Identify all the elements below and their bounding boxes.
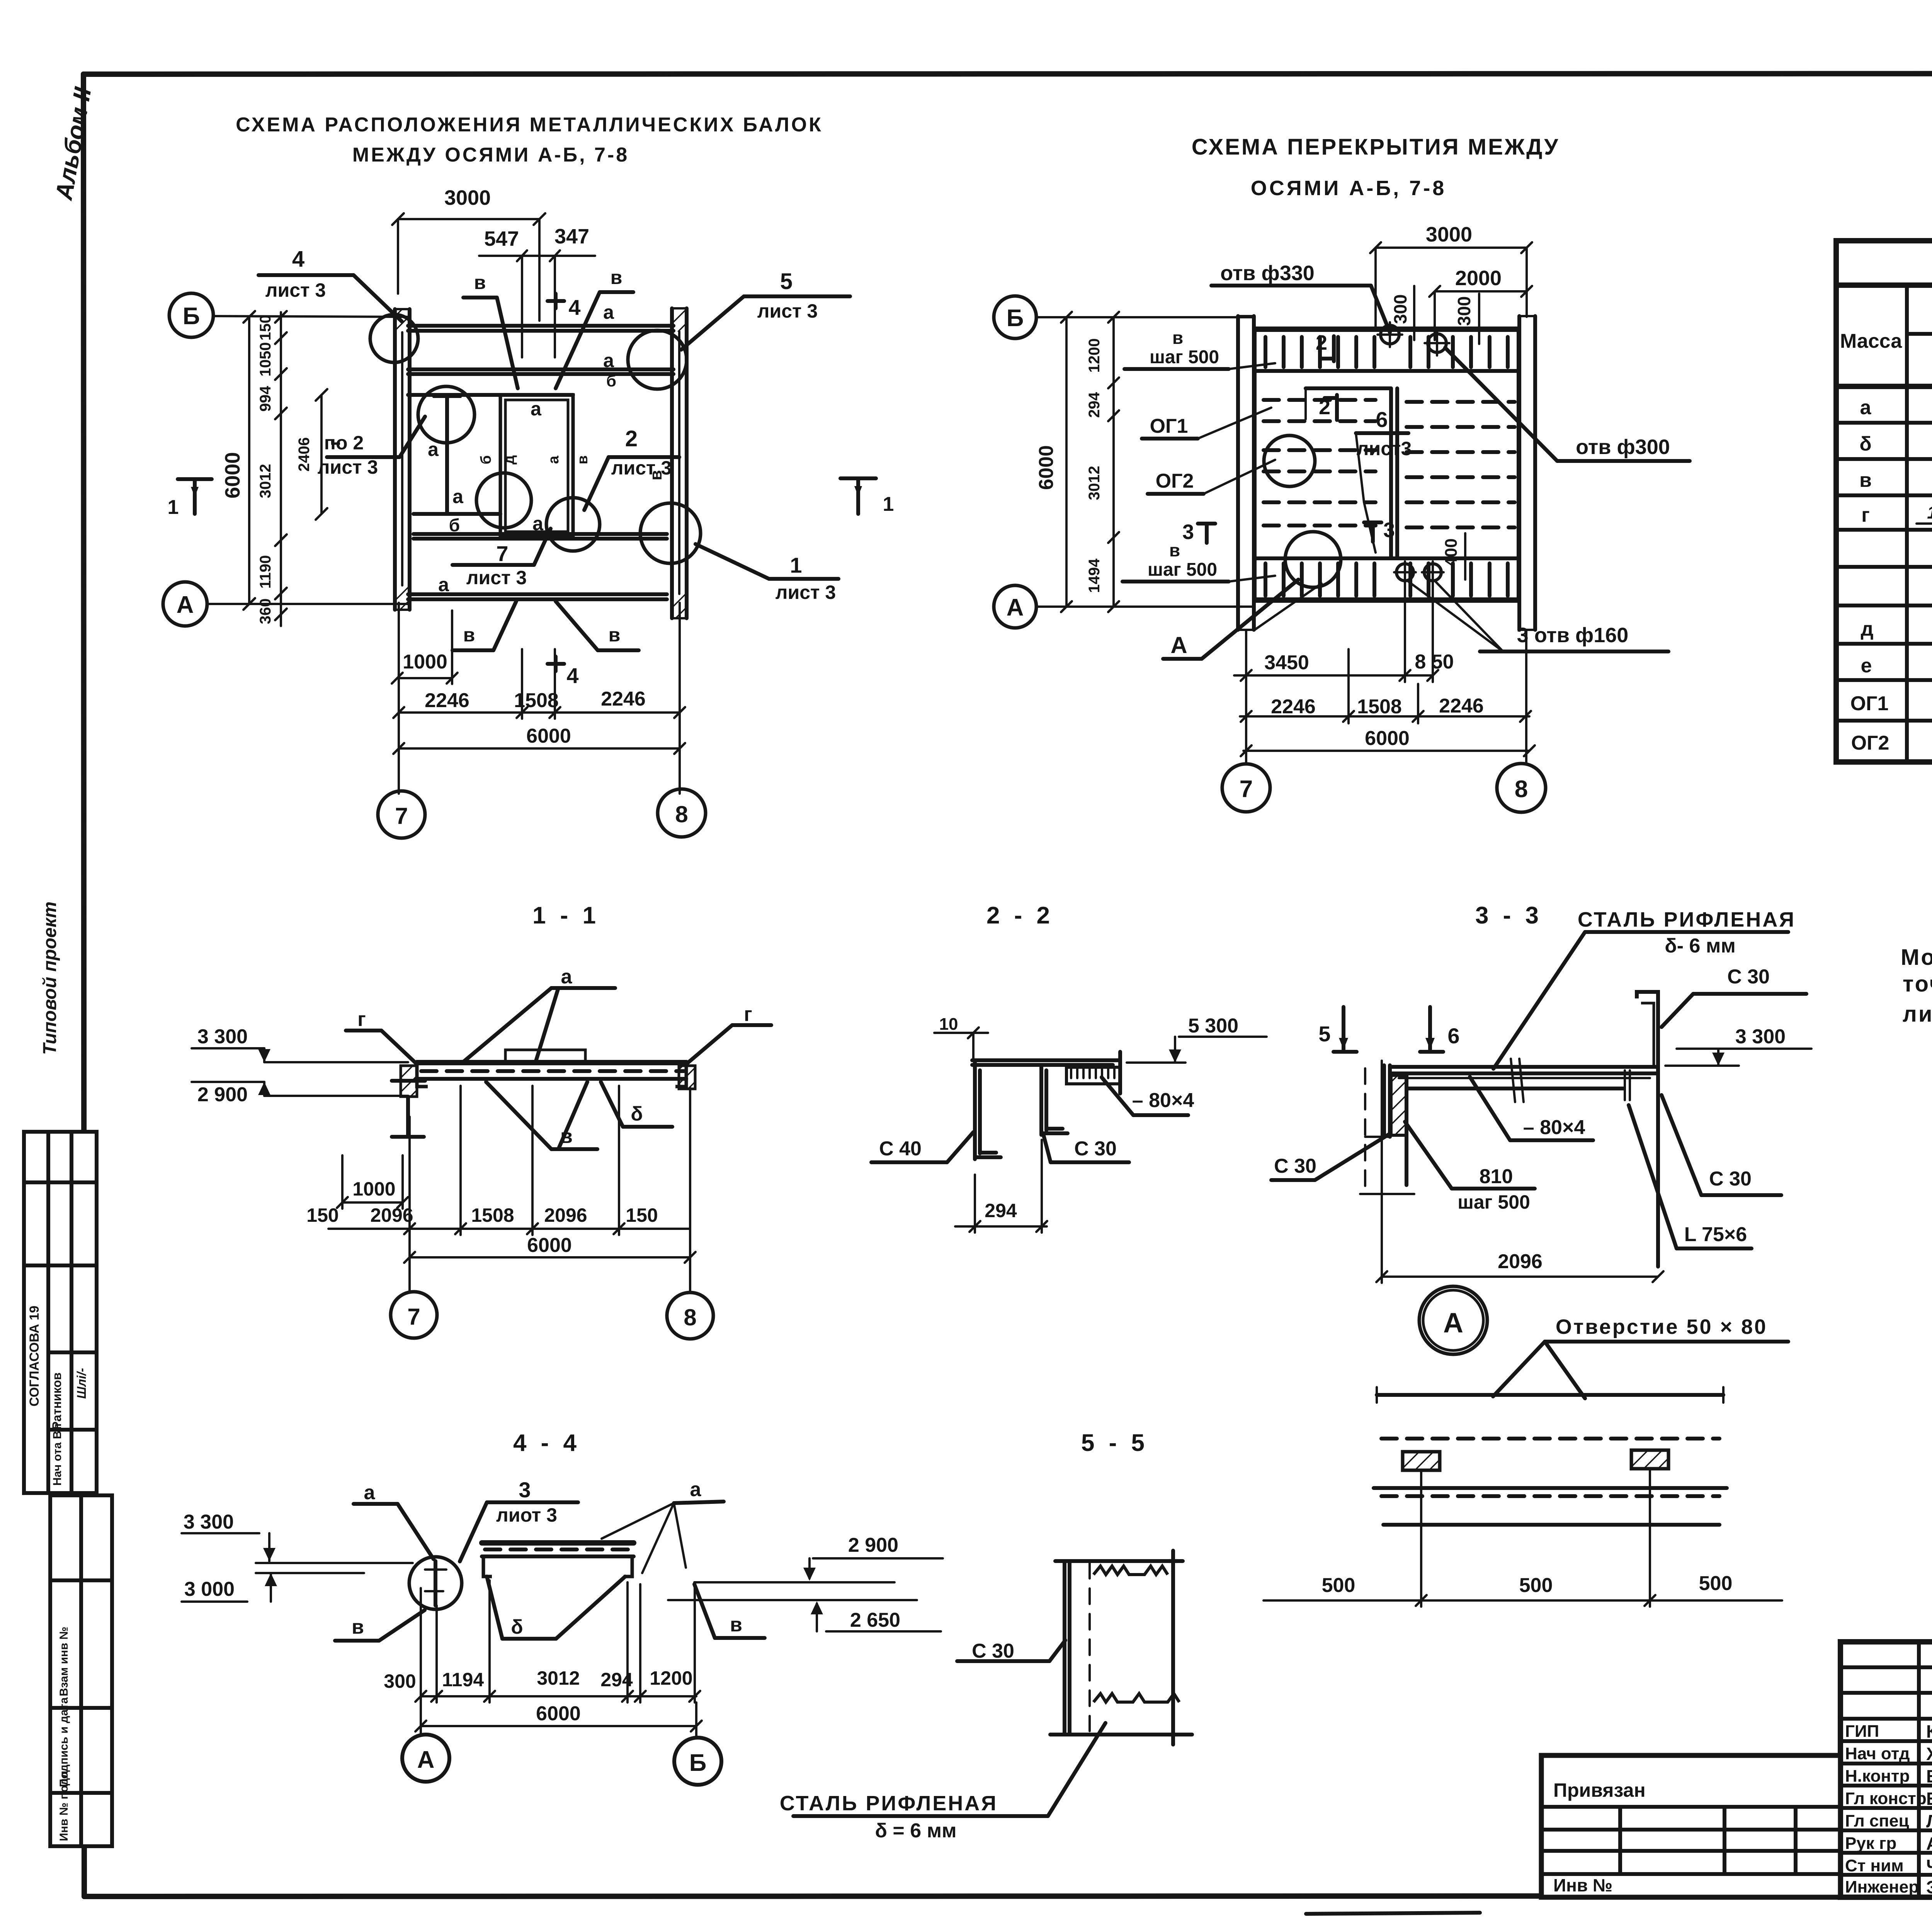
- section 1-1 dim 1000: [337, 1155, 408, 1209]
- table row b: [1859, 430, 1932, 456]
- svg-text:СХЕМА РАСПОЛОЖЕНИЯ МЕТАЛЛИЧЕС: СХЕМА РАСПОЛОЖЕНИЯ МЕТАЛЛИЧЕСКИХ БАЛОК: [236, 114, 823, 136]
- section 1-1 grid circle 7: [391, 1292, 437, 1338]
- grid circle А plan2: [994, 585, 1255, 628]
- svg-text:г: г: [744, 1003, 752, 1026]
- section 3-3 callout C30 top: [1662, 966, 1806, 1027]
- plan1 grid circle 8: [658, 789, 706, 837]
- plan2 bottom hole2 ф160: [1422, 561, 1444, 583]
- detail A beam plan: [1374, 1387, 1727, 1525]
- svg-text:5: 5: [780, 269, 793, 294]
- svg-text:2406: 2406: [296, 437, 313, 472]
- table header texts: [1840, 296, 1932, 385]
- plan2 section mark 3 left: [1182, 520, 1215, 544]
- svg-text:1: 1: [883, 493, 894, 515]
- title block signature names: [1926, 1721, 1932, 1897]
- section 3-3 callout 810 шаг500: [1405, 1122, 1535, 1213]
- svg-text:1: 1: [790, 553, 802, 577]
- plan1 detail circle C4: [476, 473, 531, 528]
- svg-text:δ: δ: [1859, 433, 1872, 455]
- detail A hole 2: [1631, 1450, 1668, 1469]
- section 4-4 v callout left: [335, 1610, 425, 1641]
- svg-text:Н.контр: Н.контр: [1845, 1767, 1910, 1786]
- svg-text:Нач отд: Нач отд: [1845, 1744, 1910, 1763]
- section 4-4 heading: [513, 1430, 580, 1456]
- section 3-3 deck plate: [1390, 1059, 1658, 1102]
- plan1 letter labels: [325, 301, 665, 595]
- section 5-5 column top line: [1050, 1551, 1192, 1745]
- svg-text:лист 3: лист 3: [611, 457, 672, 479]
- svg-text:б: б: [478, 455, 494, 464]
- plan2 dim 3450 850: [1234, 583, 1454, 682]
- section 5-5 leader to сталь рифленая: [1048, 1723, 1105, 1816]
- section 4-4 level 3000: [182, 1573, 364, 1602]
- svg-text:400: 400: [1442, 538, 1461, 566]
- section 4-4 callout 3 лист3: [460, 1478, 578, 1561]
- svg-text:1194: 1194: [442, 1669, 484, 1690]
- section 4-4 grid circle Б: [674, 1738, 721, 1785]
- plan2 dim 2246 1508 2246: [1240, 649, 1531, 723]
- section 1-1 dim 6000: [404, 1088, 696, 1292]
- plan1 beam under opening: [413, 512, 500, 516]
- plan1 grid circle 7: [378, 791, 425, 838]
- plan2 hole ф330: [1378, 322, 1402, 347]
- table row v: [1859, 467, 1932, 493]
- svg-text:360: 360: [257, 599, 274, 624]
- plan2 label А apex leader: [1255, 583, 1321, 630]
- svg-text:а: а: [364, 1481, 376, 1504]
- svg-text:в: в: [1172, 328, 1183, 348]
- section 4-4 dim 6000: [415, 1702, 702, 1737]
- svg-text:3 отв ф160: 3 отв ф160: [1517, 624, 1629, 647]
- plan1 callout 4 лист3: [259, 247, 402, 321]
- table row OG2: [1851, 730, 1932, 755]
- plan1 title line2: [352, 144, 629, 166]
- plan1 callout по2 лист3: [318, 417, 425, 478]
- svg-text:в: в: [575, 455, 591, 464]
- elements table frame: [1836, 241, 1932, 762]
- svg-text:Нач ота Вл: Нач ота Вл: [51, 1423, 64, 1486]
- svg-text:1000: 1000: [352, 1178, 395, 1200]
- svg-text:547: 547: [484, 227, 519, 250]
- plan2 label ОГ2: [1148, 460, 1275, 494]
- section 5-5 heading: [1081, 1430, 1148, 1456]
- svg-text:2 - 2: 2 - 2: [986, 902, 1054, 929]
- svg-text:д: д: [501, 455, 517, 464]
- plan2 rotated dim 400: [1442, 533, 1465, 580]
- svg-text:2 650: 2 650: [850, 1609, 900, 1631]
- svg-text:а: а: [532, 513, 544, 534]
- svg-text:5: 5: [1318, 1022, 1330, 1046]
- plan2 section mark 2 top: [1316, 331, 1334, 361]
- svg-text:4: 4: [292, 247, 304, 272]
- svg-text:6000: 6000: [526, 725, 571, 747]
- svg-text:1508: 1508: [514, 689, 559, 712]
- svg-text:2246: 2246: [1439, 695, 1484, 717]
- svg-text:шаг 500: шаг 500: [1150, 347, 1219, 367]
- plan1 beam lower: [413, 534, 667, 539]
- svg-text:7: 7: [395, 803, 408, 829]
- plan1 dim row 2246 1508 2246: [393, 649, 685, 719]
- section 3-3 left support column: [1360, 1065, 1414, 1194]
- section 1-1 level 3.300: [192, 1026, 408, 1062]
- section 1-1 grid circle 8: [667, 1293, 713, 1339]
- title block outer: [1840, 1642, 1932, 1897]
- detail A dims 500 500 500: [1264, 1471, 1782, 1607]
- svg-text:в: в: [352, 1616, 364, 1638]
- svg-text:МЕЖДУ ОСЯМИ А-Б, 7-8: МЕЖДУ ОСЯМИ А-Б, 7-8: [352, 144, 629, 166]
- svg-text:1190: 1190: [257, 555, 274, 589]
- svg-text:в: в: [474, 272, 486, 293]
- svg-text:Рук гр: Рук гр: [1845, 1834, 1896, 1853]
- section 2-2 heading: [986, 902, 1054, 929]
- plan1 section mark 4 top: [548, 294, 581, 320]
- svg-text:по 2: по 2: [324, 432, 364, 454]
- table row d: [1861, 609, 1932, 643]
- plan1 dim 547 left: [479, 225, 595, 357]
- plan1 detail circle C2: [628, 330, 687, 389]
- plan2 dim 3000: [1370, 223, 1532, 328]
- title block privyazan box: [1541, 1755, 1840, 1897]
- label сталь рифленая bottom: [780, 1792, 1048, 1842]
- svg-text:2096: 2096: [370, 1204, 413, 1226]
- svg-text:в: в: [730, 1614, 742, 1636]
- plan2 title line2: [1251, 177, 1446, 200]
- svg-text:Монтажные соединения выполня: Монтажные соединения выполнять на болтах…: [1901, 945, 1932, 970]
- svg-text:500: 500: [1699, 1572, 1733, 1595]
- svg-text:3012: 3012: [257, 464, 274, 498]
- page border bottom: [84, 1896, 1932, 1896]
- svg-text:Черкасова: Черкасова: [1926, 1856, 1932, 1876]
- plan1 callout 1 лист3: [696, 544, 838, 603]
- svg-text:4 - 4: 4 - 4: [513, 1430, 580, 1456]
- table row OG1: [1850, 690, 1932, 715]
- svg-text:отв ф300: отв ф300: [1576, 435, 1670, 459]
- table row e: [1861, 651, 1932, 677]
- section 2-2 callout C40: [871, 1132, 973, 1162]
- plan1 callout 2 лист3: [584, 426, 679, 510]
- svg-text:1: 1: [168, 496, 179, 519]
- plan1 detail circle C6: [640, 503, 701, 563]
- plan2 label А: [1163, 580, 1298, 659]
- svg-text:С 30: С 30: [1074, 1138, 1117, 1160]
- svg-text:Б: Б: [183, 303, 200, 330]
- detail A callout отверстие 50x80: [1493, 1315, 1788, 1398]
- plan2 dim chain 6000 vertical: [1035, 312, 1072, 612]
- svg-text:лист 3: лист 3: [757, 300, 818, 322]
- plan1 beam on axis А: [408, 594, 667, 599]
- section 3-3 callout -80x4: [1470, 1077, 1593, 1140]
- svg-text:Инв № подл: Инв № подл: [58, 1771, 70, 1841]
- svg-text:8: 8: [1515, 776, 1528, 803]
- plan1 title line1: [236, 114, 823, 136]
- plan2 label шаг500 bottom: [1122, 540, 1275, 582]
- plan1 left dim chain segments: [257, 311, 287, 626]
- svg-text:А: А: [417, 1747, 435, 1773]
- section 5-5 callout C30: [957, 1640, 1065, 1662]
- page border top: [83, 73, 1932, 74]
- svg-text:L 75×6: L 75×6: [1684, 1223, 1747, 1246]
- svg-text:Б: Б: [689, 1750, 707, 1776]
- plan1 beam mid partial: [408, 393, 573, 397]
- svg-text:а: а: [438, 574, 449, 595]
- svg-text:в: в: [609, 624, 621, 646]
- svg-text:3000: 3000: [1426, 223, 1472, 246]
- note text: [1901, 945, 1932, 1027]
- svg-text:6000: 6000: [1035, 445, 1058, 490]
- svg-text:3012: 3012: [537, 1667, 580, 1689]
- svg-text:б: б: [606, 372, 616, 390]
- svg-text:2: 2: [625, 426, 638, 451]
- svg-text:ОГ2: ОГ2: [1156, 470, 1194, 492]
- svg-text:2246: 2246: [1271, 696, 1316, 718]
- svg-text:294: 294: [985, 1200, 1017, 1221]
- svg-text:6000: 6000: [1365, 727, 1410, 750]
- svg-text:Винклер: Винклер: [1926, 1789, 1932, 1809]
- svg-text:С 40: С 40: [879, 1138, 922, 1160]
- svg-text:а: а: [1860, 396, 1872, 419]
- plan2 dashed deck lines right half: [1406, 402, 1515, 527]
- svg-text:Ст ним: Ст ним: [1845, 1856, 1904, 1875]
- plan1 section mark 1 left: [168, 479, 212, 519]
- svg-text:С 30: С 30: [1274, 1155, 1316, 1177]
- plan2 left column: [1238, 316, 1254, 630]
- svg-text:Кирсанов: Кирсанов: [1926, 1721, 1932, 1742]
- svg-text:1508: 1508: [1357, 696, 1402, 718]
- svg-text:ГИП: ГИП: [1845, 1722, 1879, 1741]
- svg-text:2 900: 2 900: [197, 1083, 248, 1106]
- svg-text:лист 3: лист 3: [466, 567, 527, 588]
- svg-text:6: 6: [1447, 1024, 1459, 1048]
- section 4-4 delta callout: [487, 1577, 625, 1639]
- section 4-4 level 2900: [694, 1534, 943, 1582]
- svg-text:2: 2: [1316, 331, 1327, 354]
- plan2 title line1: [1192, 134, 1560, 160]
- svg-text:е: е: [1861, 655, 1872, 677]
- grid circle Б plan2: [994, 296, 1255, 338]
- svg-text:10: 10: [939, 1015, 958, 1034]
- svg-text:347: 347: [554, 225, 589, 248]
- svg-text:δ- 6 мм: δ- 6 мм: [1665, 935, 1736, 957]
- section 4-4 level 2650: [668, 1600, 941, 1631]
- section 2-2 dim 294: [955, 1140, 1047, 1233]
- plan1 section mark 1 right: [840, 478, 894, 515]
- plan1 в flag left: [463, 272, 518, 388]
- svg-text:5 - 5: 5 - 5: [1081, 1430, 1148, 1456]
- svg-text:а: а: [531, 398, 542, 420]
- section 2-2 callout -80x4: [1102, 1077, 1194, 1115]
- svg-text:8: 8: [684, 1304, 696, 1330]
- svg-text:1050: 1050: [257, 342, 274, 377]
- plan2 dim 2000: [1429, 267, 1532, 340]
- svg-text:СТАЛЬ РИФЛЕНАЯ: СТАЛЬ РИФЛЕНАЯ: [1578, 908, 1796, 931]
- svg-text:Инв №: Инв №: [1553, 1875, 1612, 1895]
- section 2-2 channel C30: [1041, 1065, 1068, 1135]
- svg-text:Гл спец: Гл спец: [1845, 1811, 1909, 1830]
- svg-text:δ: δ: [511, 1616, 523, 1638]
- plan2 grid circle 7: [1222, 764, 1270, 812]
- svg-text:1 - 1: 1 - 1: [532, 902, 600, 929]
- plan1 right column: [672, 308, 687, 618]
- section 3-3 heading: [1475, 902, 1543, 929]
- section 3-3 cut mark 6: [1420, 1007, 1460, 1052]
- plan2 callout отв ф330: [1211, 262, 1390, 332]
- svg-text:отв ф330: отв ф330: [1220, 262, 1315, 285]
- section 1-1 right support: [679, 1066, 695, 1089]
- svg-text:150: 150: [257, 315, 274, 341]
- svg-text:д: д: [1861, 618, 1873, 640]
- svg-text:шаг 500: шаг 500: [1148, 560, 1217, 580]
- section 3-3 level 3300: [1665, 1026, 1811, 1066]
- svg-text:лиот 3: лиот 3: [496, 1504, 557, 1526]
- plan1 left column: [395, 309, 410, 610]
- album label vertical (Альбом II): [50, 85, 97, 202]
- section 4-4 v callout right: [694, 1584, 765, 1638]
- section 1-1 heading: [532, 902, 600, 929]
- svg-text:С 30: С 30: [1727, 966, 1770, 988]
- svg-text:а: а: [428, 439, 439, 460]
- svg-text:δ: δ: [631, 1103, 643, 1125]
- svg-text:а: а: [690, 1478, 702, 1501]
- left margin stamp table 1: [24, 1132, 97, 1493]
- svg-text:– 80×4: – 80×4: [1523, 1116, 1585, 1139]
- section 3-3 callout сталь рифленая: [1493, 908, 1796, 1069]
- svg-text:500: 500: [1519, 1574, 1553, 1597]
- plan2 callout 3отв ф160: [1408, 582, 1668, 651]
- svg-text:а: а: [561, 966, 573, 988]
- section 1-1 callout b: [601, 1082, 672, 1127]
- svg-text:– 80×4: – 80×4: [1132, 1089, 1194, 1112]
- svg-text:300: 300: [1454, 296, 1474, 326]
- section 4-4 dims row: [384, 1580, 700, 1702]
- svg-text:3000: 3000: [444, 186, 491, 209]
- section 1-1 slab: [417, 1050, 686, 1087]
- section 4-4 beam slab: [482, 1543, 634, 1577]
- svg-text:Гл констр: Гл констр: [1845, 1789, 1927, 1808]
- plan1 beam on axis Б: [408, 326, 673, 331]
- svg-text:2246: 2246: [425, 689, 469, 712]
- svg-text:а: а: [603, 350, 614, 371]
- svg-text:а: а: [452, 486, 464, 507]
- plan2 hole ф300: [1425, 331, 1449, 355]
- plan2 left dim chain: [1086, 312, 1119, 612]
- svg-text:300: 300: [384, 1670, 416, 1692]
- plan2 deck rib band bottom: [1255, 558, 1519, 596]
- plan1 callout 7 лист3: [452, 529, 551, 588]
- svg-text:1: 1: [1927, 502, 1932, 522]
- table row a: [1860, 394, 1932, 420]
- svg-text:3450: 3450: [1264, 651, 1309, 674]
- svg-text:Отверстие 50 × 80: Отверстие 50 × 80: [1556, 1315, 1767, 1338]
- svg-text:в: в: [611, 267, 622, 288]
- svg-text:1494: 1494: [1086, 558, 1103, 593]
- plan1 dim 1000: [392, 611, 457, 684]
- svg-text:3 - 3: 3 - 3: [1475, 902, 1543, 929]
- section 3-3 callout C30 left: [1271, 1134, 1390, 1180]
- svg-text:2 900: 2 900: [848, 1534, 898, 1556]
- svg-text:7: 7: [496, 541, 508, 566]
- svg-text:СХЕМА ПЕРЕКРЫТИЯ МЕЖДУ: СХЕМА ПЕРЕКРЫТИЯ МЕЖДУ: [1192, 134, 1560, 160]
- plan1 detail circle C5: [546, 498, 600, 551]
- plan1 lower labels a and в marks: [452, 601, 639, 650]
- plan2 ОГ1 channel dashed: [1264, 400, 1376, 421]
- plan1 в flag right: [556, 267, 633, 388]
- svg-text:6000: 6000: [527, 1234, 572, 1257]
- svg-text:150: 150: [626, 1204, 658, 1226]
- section 1-1 level 2.900: [192, 1082, 408, 1106]
- svg-text:Алехова: Алехова: [1926, 1833, 1932, 1854]
- plan1 dim 3000: [392, 186, 545, 321]
- svg-text:СТАЛЬ РИФЛЕНАЯ: СТАЛЬ РИФЛЕНАЯ: [780, 1792, 998, 1815]
- plan1 detail circle C1: [370, 315, 418, 362]
- svg-text:Ратников: Ратников: [50, 1372, 64, 1430]
- plan2 detail circle upper: [1264, 435, 1315, 486]
- svg-text:2096: 2096: [544, 1204, 587, 1226]
- svg-text:лист3: лист3: [1357, 438, 1412, 459]
- section 2-2 callout C30: [1043, 1134, 1129, 1162]
- svg-text:810: 810: [1480, 1165, 1513, 1188]
- plan2 rotated dims 300 300: [1390, 286, 1479, 344]
- svg-text:Хрупало: Хрупало: [1926, 1744, 1932, 1764]
- svg-text:3: 3: [519, 1478, 531, 1502]
- section 1-1 callout g left: [346, 1008, 417, 1064]
- plan2 middle opening beams: [1306, 388, 1397, 558]
- svg-text:С 30: С 30: [1709, 1168, 1752, 1190]
- plan2 bottom hole1 ф160: [1394, 561, 1416, 583]
- svg-text:Масса: Масса: [1840, 330, 1902, 352]
- plan1 dim 2406: [296, 389, 327, 520]
- section 5-5 weld marks top: [1094, 1566, 1168, 1575]
- svg-text:500: 500: [1322, 1574, 1355, 1597]
- svg-text:г: г: [357, 1008, 366, 1031]
- svg-text:ОГ2: ОГ2: [1851, 732, 1889, 754]
- plan1 opening frame: [500, 395, 573, 537]
- svg-text:6000: 6000: [221, 452, 244, 498]
- svg-text:3 000: 3 000: [184, 1578, 235, 1600]
- svg-text:δ = 6 мм: δ = 6 мм: [875, 1820, 956, 1842]
- plan1 detail circle C3: [418, 386, 474, 443]
- section 3-3 right channel top: [1637, 992, 1658, 1070]
- svg-text:994: 994: [257, 386, 274, 412]
- plan2 grid circle 8: [1497, 764, 1546, 812]
- detail A hole 1: [1403, 1452, 1440, 1470]
- plan2 section mark 3 right: [1364, 519, 1395, 542]
- svg-text:150: 150: [306, 1204, 338, 1226]
- svg-text:А: А: [1443, 1308, 1463, 1338]
- grid circle Б plan1: [169, 293, 408, 337]
- svg-text:лист 3: лист 3: [318, 456, 378, 478]
- plan1 left dim chain 6000: [221, 311, 255, 610]
- svg-text:2246: 2246: [601, 688, 646, 710]
- svg-text:300: 300: [1390, 294, 1410, 324]
- svg-text:1000: 1000: [403, 651, 447, 673]
- section 3-3 right column: [1625, 1070, 1658, 1267]
- section 1-1 left support: [392, 1066, 425, 1137]
- stray mark bottom: [1306, 1913, 1480, 1914]
- svg-text:3 300: 3 300: [1735, 1026, 1786, 1048]
- section 1-1 callout a: [463, 966, 615, 1062]
- svg-text:1200: 1200: [1086, 338, 1103, 373]
- plan1 section mark 4 bottom: [548, 656, 579, 688]
- svg-text:точности М12 и сварке Указа: точности М12 и сварке Указания по сварке…: [1903, 971, 1932, 997]
- title block signature labels: [1845, 1722, 1927, 1896]
- svg-text:3012: 3012: [1086, 466, 1103, 500]
- section 3-3 dim 2096: [1376, 1061, 1663, 1283]
- table row g: [1861, 501, 1932, 526]
- title block signature grid: [1840, 1642, 1932, 1897]
- svg-text:а: а: [546, 456, 562, 464]
- section 3-3 callout C30 right: [1662, 1095, 1781, 1195]
- section 1-1 dim row 150 2096 1508 2096 150: [306, 1086, 690, 1235]
